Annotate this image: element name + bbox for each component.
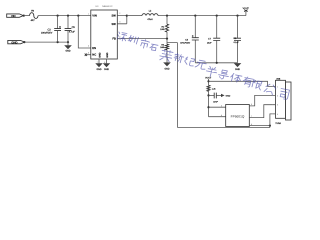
- svg-text:SW: SW: [111, 23, 116, 26]
- svg-text:4.7uF: 4.7uF: [69, 31, 75, 34]
- svg-text:GND: GND: [164, 68, 169, 71]
- wire output gnd rail: [195, 62, 237, 64]
- wire IC gnd pin right: [249, 125, 270, 127]
- svg-text:1.2k: 1.2k: [212, 87, 216, 90]
- svg-text:240k: 240k: [160, 46, 164, 49]
- watermark: [116, 31, 290, 100]
- node SW dot: [126, 15, 128, 17]
- node dot pin5 branch: [207, 106, 209, 108]
- wire GND rail: [24, 41, 68, 43]
- svg-text:0.1uF: 0.1uF: [234, 41, 240, 44]
- svg-text:470uF/16V: 470uF/16V: [180, 42, 190, 45]
- svg-text:100k: 100k: [160, 28, 164, 31]
- svg-text:EN: EN: [92, 47, 96, 50]
- power flag VOUT: [243, 7, 250, 16]
- capacitor C3: [41, 16, 61, 42]
- resistor R4: [160, 39, 168, 63]
- node FB dot: [166, 38, 168, 40]
- wire DM to USB pin2: [249, 95, 273, 106]
- wire DP to USB pin3: [249, 105, 273, 118]
- svg-text:USB: USB: [276, 77, 281, 80]
- fuse FB1: [30, 9, 38, 22]
- wire to pin4: [209, 116, 226, 118]
- capacitor C6 47nF: [209, 93, 222, 104]
- svg-text:YU5A: YU5A: [275, 122, 281, 125]
- node rail dot EN branch: [77, 15, 79, 17]
- node VIN junction dot: [23, 15, 25, 17]
- svg-text:FB: FB: [112, 38, 116, 41]
- svg-text:NB634 EC: NB634 EC: [102, 5, 113, 8]
- ground R4: [163, 62, 171, 70]
- node rail dot C4: [194, 15, 196, 17]
- no-connect NC pin: [85, 54, 91, 56]
- svg-text:GND: GND: [99, 52, 102, 57]
- ground input: [64, 42, 72, 52]
- wire L2 to VOUT rail: [158, 15, 246, 17]
- svg-text:GND: GND: [104, 68, 109, 71]
- connector GND: [8, 40, 25, 44]
- node gnd rail dot C3: [57, 41, 59, 43]
- svg-text:VOUT: VOUT: [243, 7, 250, 10]
- svg-text:GND: GND: [235, 68, 240, 71]
- node rail dot C7: [216, 15, 218, 17]
- node GND junction dot: [23, 41, 25, 43]
- wire fuse to U3 VIN rail: [38, 15, 91, 17]
- node rail dot C8: [236, 15, 238, 17]
- capacitor C7: [207, 16, 220, 63]
- connector USB port: [273, 77, 291, 124]
- svg-text:100uF/25V: 100uF/25V: [41, 32, 53, 35]
- svg-text:GND: GND: [11, 41, 17, 44]
- svg-text:GND: GND: [106, 52, 109, 57]
- ground sideways: [221, 94, 231, 98]
- node dot VBUS branch: [207, 80, 209, 82]
- resistor R1: [160, 16, 168, 39]
- node rail dot C3: [57, 15, 59, 17]
- wire VIN to fuse: [24, 15, 30, 17]
- wire VOUT column: [208, 79, 210, 117]
- wire VBUS to USB pin1: [209, 81, 273, 86]
- wire SW to L2: [127, 15, 142, 17]
- ground U3 pad B: [103, 59, 110, 71]
- svg-text:47uH: 47uH: [147, 18, 153, 21]
- svg-text:VIN: VIN: [11, 15, 16, 18]
- wire gnd rail lower: [178, 114, 273, 128]
- svg-text:GND: GND: [65, 50, 70, 53]
- ground output: [234, 63, 242, 71]
- svg-text:FP6601Q: FP6601Q: [231, 114, 245, 118]
- svg-text:NC: NC: [92, 54, 96, 57]
- node dot cap branch: [207, 94, 209, 96]
- connector VIN: [7, 14, 24, 18]
- wire FB node to down column: [167, 43, 178, 128]
- resistor R5: [207, 85, 215, 91]
- svg-text:GND: GND: [96, 68, 101, 71]
- node gnd rail dot C5: [67, 41, 69, 43]
- capacitor C5: [65, 16, 76, 42]
- wire SW pins join: [117, 16, 127, 24]
- svg-text:VOUT: VOUT: [205, 76, 212, 79]
- op-amp U3 buck converter: [88, 5, 121, 64]
- node rail dot C5: [67, 15, 69, 17]
- ground U3 pad A: [95, 59, 102, 71]
- svg-text:10uF: 10uF: [207, 41, 212, 44]
- node gnd rail dot C7: [216, 62, 218, 64]
- node dot gnd: [269, 125, 271, 127]
- node rail dot R1: [166, 15, 168, 17]
- svg-text:47nF: 47nF: [213, 100, 218, 103]
- wire EN drop: [78, 16, 91, 48]
- wire FB: [117, 38, 167, 40]
- svg-text:GND: GND: [226, 94, 231, 97]
- svg-text:SW: SW: [111, 15, 116, 18]
- op-amp U4 FP6601Q: [226, 105, 250, 127]
- svg-text:VIN: VIN: [92, 15, 97, 18]
- capacitor C4: [180, 16, 199, 63]
- capacitor C8: [233, 16, 241, 63]
- inductor L2: [142, 10, 158, 21]
- wire VDD to pin5: [209, 106, 226, 108]
